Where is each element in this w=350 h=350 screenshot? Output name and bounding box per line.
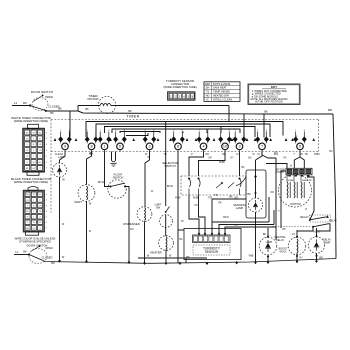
- svg-text:BU: BU: [38, 162, 41, 164]
- svg-text:GY: GY: [299, 257, 303, 260]
- svg-text:T: T: [295, 130, 297, 132]
- turbidity left feed: [178, 229, 184, 231]
- svg-text:RELAY: RELAY: [300, 215, 309, 219]
- selector contacts: [188, 178, 190, 180]
- key box: [248, 84, 300, 105]
- svg-text:(WIRE INSERTION SIDE): (WIRE INSERTION SIDE): [163, 85, 196, 89]
- svg-text:9: 9: [64, 145, 66, 149]
- svg-text:START: START: [288, 179, 296, 182]
- svg-text:LAMP: LAMP: [236, 206, 244, 210]
- wire junction to terminal 9 drop: [69, 111, 71, 137]
- svg-text:BK: BK: [329, 150, 333, 153]
- svg-text:P/BK: P/BK: [175, 196, 181, 199]
- legend table: [204, 82, 240, 102]
- heater: [150, 236, 173, 263]
- svg-text:P: P: [39, 138, 41, 140]
- svg-text:SWITCH: SWITCH: [164, 164, 175, 168]
- svg-text:BK: BK: [282, 228, 286, 231]
- motor right wire to relay: [308, 175, 315, 220]
- svg-text:7: 7: [261, 145, 263, 149]
- svg-text:Y: Y: [33, 150, 35, 152]
- wire B : L1 run to right edge: [78, 111, 333, 114]
- svg-text:SENSOR: SENSOR: [205, 250, 219, 254]
- wire bundle selector to turbidity sensor: [189, 195, 276, 233]
- svg-text:S: S: [115, 130, 117, 132]
- wire A drop at x229: [228, 106, 230, 123]
- svg-text:OR: OR: [270, 191, 274, 194]
- svg-text:W: W: [33, 162, 36, 164]
- svg-text:DISPENSER: DISPENSER: [123, 222, 140, 226]
- svg-text:LAMP: LAMP: [324, 241, 331, 244]
- svg-text:P: P: [39, 200, 41, 202]
- svg-text:T/R: T/R: [214, 194, 218, 197]
- svg-text:2: 2: [39, 156, 41, 158]
- svg-text:V: V: [27, 205, 29, 207]
- svg-text:BU: BU: [90, 152, 94, 155]
- timer terminal 7 at x=262: [255, 132, 269, 152]
- svg-text:4: 4: [46, 211, 48, 213]
- svg-text:TS: TS: [206, 90, 210, 94]
- svg-text:P&P: P&P: [205, 82, 211, 86]
- svg-text:V: V: [26, 144, 28, 146]
- svg-text:L1: L1: [15, 250, 19, 254]
- neutral bus wire (bottom): [43, 259, 336, 264]
- sensing lamp enclosure: [246, 170, 266, 218]
- svg-text:IC: IC: [206, 97, 209, 101]
- svg-text:INTELLI CLEAN: INTELLI CLEAN: [213, 97, 232, 101]
- secondary bus segment: [138, 257, 207, 259]
- svg-text:P: P: [191, 153, 193, 156]
- svg-text:OR: OR: [208, 157, 212, 160]
- svg-text:7: 7: [46, 228, 48, 230]
- wire A : timer motor to drop x229: [116, 105, 229, 107]
- svg-text:1: 1: [33, 156, 35, 158]
- svg-text:R: R: [305, 208, 307, 211]
- svg-text:BU: BU: [38, 132, 41, 134]
- timer motor TM: [78, 94, 116, 114]
- svg-text:TIMER: TIMER: [126, 115, 139, 119]
- svg-text:3: 3: [46, 205, 48, 207]
- svg-text:W: W: [147, 255, 150, 258]
- svg-text:GY: GY: [230, 157, 234, 160]
- svg-text:VENT: VENT: [74, 200, 82, 204]
- svg-text:OR: OR: [38, 144, 42, 146]
- svg-text:HEATER: HEATER: [150, 251, 161, 255]
- motor connector strip: [286, 168, 312, 176]
- timer terminal 6 at x=120: [113, 132, 127, 152]
- svg-text:BU: BU: [38, 222, 41, 224]
- svg-text:1: 1: [33, 217, 35, 219]
- motor feed horizontals: [266, 164, 287, 169]
- svg-text:W: W: [33, 132, 36, 134]
- clean lamp: [53, 152, 67, 262]
- svg-text:2: 2: [39, 217, 41, 219]
- stray connection arrows: [54, 138, 57, 141]
- svg-text:BK: BK: [26, 168, 29, 170]
- svg-text:T: T: [293, 153, 295, 156]
- svg-text:BK: BK: [247, 193, 251, 196]
- svg-text:GY: GY: [32, 168, 36, 170]
- motor feed from terminal 5: [294, 152, 300, 169]
- svg-text:BK: BK: [26, 194, 29, 196]
- svg-text:(W-D): (W-D): [280, 250, 287, 253]
- timer terminal 1 at x=104.5: [98, 132, 112, 152]
- svg-text:PK: PK: [234, 224, 238, 227]
- ground symbol: [110, 162, 116, 164]
- svg-text:T: T: [257, 130, 259, 132]
- timer enclosure right dashed edge: [318, 120, 320, 152]
- svg-text:T: T: [33, 200, 35, 202]
- svg-text:1: 1: [103, 145, 105, 149]
- svg-text:(WIRE INSERTION SIDE): (WIRE INSERTION SIDE): [14, 180, 49, 184]
- svg-text:PK: PK: [283, 157, 287, 160]
- svg-text:W: W: [252, 153, 255, 156]
- svg-text:PK: PK: [305, 153, 309, 156]
- timer terminal 9 at x=65: [58, 132, 72, 152]
- svg-text:MOTOR: MOTOR: [87, 97, 99, 101]
- svg-text:DELAY: DELAY: [276, 239, 284, 242]
- svg-text:SANI HEAT: SANI HEAT: [213, 86, 227, 90]
- svg-text:BR: BR: [319, 257, 323, 260]
- svg-text:8: 8: [207, 130, 209, 132]
- svg-text:GY: GY: [309, 179, 313, 182]
- ground stub U: [110, 152, 116, 167]
- svg-text:3: 3: [27, 222, 29, 224]
- svg-text:OPEN: OPEN: [45, 95, 53, 99]
- svg-text:TN: TN: [39, 150, 42, 152]
- svg-text:OR: OR: [38, 205, 42, 207]
- timer internal bus wires: [86, 122, 296, 138]
- svg-text:Y: Y: [234, 130, 236, 132]
- selector aux contact: [236, 177, 246, 186]
- svg-text:MAIN: MAIN: [302, 179, 308, 182]
- svg-text:SWITCH: SWITCH: [113, 175, 124, 179]
- svg-text:BK: BK: [264, 110, 268, 114]
- svg-text:3: 3: [46, 144, 48, 146]
- svg-text:T: T: [33, 138, 35, 140]
- svg-text:DOOR SWITCH: DOOR SWITCH: [31, 90, 53, 94]
- float switch: [105, 152, 130, 263]
- timer terminal 4 at x=203.5: [197, 132, 211, 152]
- turbidity sensor connector block: [168, 92, 196, 100]
- svg-text:8: 8: [177, 145, 179, 149]
- svg-text:W: W: [257, 153, 260, 156]
- svg-text:(WIRE INSERTION SIDE): (WIRE INSERTION SIDE): [14, 119, 49, 123]
- svg-text:W: W: [148, 156, 151, 159]
- dispenser solenoid: [123, 152, 152, 264]
- svg-text:2: 2: [46, 200, 48, 202]
- svg-text:RELAY: RELAY: [329, 220, 337, 223]
- svg-text:W/B: W/B: [249, 255, 254, 258]
- motor relay: [300, 215, 330, 222]
- vent motor: [74, 152, 95, 263]
- svg-text:HD: HD: [206, 94, 210, 98]
- svg-text:R/BK: R/BK: [314, 153, 320, 156]
- svg-text:MOTOR: MOTOR: [290, 202, 300, 206]
- svg-text:1: 1: [170, 96, 172, 99]
- svg-text:R: R: [33, 205, 35, 207]
- svg-text:TEMP SENSE: TEMP SENSE: [213, 90, 230, 94]
- svg-text:W: W: [89, 230, 92, 233]
- svg-text:T: T: [60, 130, 62, 132]
- motor feed jog from terminal 7: [275, 158, 277, 240]
- svg-text:BK: BK: [186, 256, 190, 259]
- selector switch box (dashed): [181, 176, 246, 195]
- svg-text:L1: L1: [14, 101, 18, 105]
- svg-text:W: W: [62, 178, 65, 182]
- relay to lamp feeds: [297, 227, 313, 231]
- door switch S1 (top left): [12, 90, 60, 115]
- timer terminal 8 at x=91.5: [85, 132, 99, 152]
- svg-text:T: T: [278, 210, 280, 213]
- timer enclosure left dashed edge: [50, 120, 52, 213]
- svg-text:5: 5: [299, 145, 301, 149]
- svg-text:BK: BK: [26, 228, 29, 230]
- svg-text:W: W: [290, 166, 293, 168]
- svg-text:BK: BK: [85, 108, 89, 111]
- svg-text:TN: TN: [39, 211, 42, 213]
- svg-text:R/G: R/G: [274, 153, 278, 155]
- sensing lamp: [233, 170, 262, 262]
- svg-text:PK: PK: [26, 150, 29, 152]
- black timer connector block: [23, 187, 47, 236]
- svg-text:3: 3: [238, 145, 240, 149]
- svg-text:BK: BK: [26, 132, 29, 134]
- svg-text:4: 4: [46, 150, 48, 152]
- svg-text:4: 4: [183, 96, 185, 99]
- svg-text:W: W: [33, 194, 36, 196]
- boost heater (W-D): [279, 230, 306, 261]
- svg-text:BK/W: BK/W: [167, 185, 174, 188]
- svg-text:BU: BU: [248, 157, 252, 160]
- svg-text:GY: GY: [292, 233, 296, 236]
- svg-text:W: W: [151, 190, 154, 193]
- svg-text:Y: Y: [99, 130, 101, 132]
- svg-text:GY: GY: [26, 200, 30, 202]
- svg-text:BK/R: BK/R: [223, 216, 229, 219]
- svg-text:T: T: [87, 130, 89, 132]
- svg-text:W: W: [62, 223, 65, 226]
- svg-text:SH: SH: [206, 86, 210, 90]
- svg-text:BK: BK: [229, 196, 233, 199]
- svg-text:BK: BK: [23, 250, 27, 254]
- svg-text:10: 10: [223, 145, 227, 149]
- wire up to timer motor line: [70, 106, 78, 112]
- wire L1 right edge vertical: [333, 114, 336, 259]
- svg-text:7: 7: [46, 168, 48, 170]
- svg-text:8: 8: [304, 130, 306, 132]
- svg-text:PK: PK: [218, 201, 222, 204]
- svg-text:TD: TD: [180, 220, 183, 223]
- svg-text:BK: BK: [58, 107, 62, 111]
- svg-text:1: 1: [220, 130, 222, 132]
- svg-text:KEY: KEY: [271, 85, 277, 89]
- svg-text:W/BK: W/BK: [219, 161, 226, 164]
- bus junction diamonds: [58, 259, 61, 262]
- svg-text:TD: TD: [163, 153, 167, 156]
- wire B drop to terminal 7: [263, 114, 265, 138]
- svg-text:T: T: [39, 168, 41, 170]
- svg-text:BK/W: BK/W: [98, 181, 105, 184]
- svg-text:1: 1: [46, 132, 48, 134]
- svg-text:BK: BK: [23, 101, 27, 105]
- svg-text:R: R: [33, 144, 35, 146]
- wire door switch to timer: [46, 110, 70, 112]
- svg-text:BK: BK: [241, 166, 245, 169]
- svg-text:HEATED DRY: HEATED DRY: [213, 94, 230, 98]
- svg-text:BU: BU: [130, 228, 134, 231]
- svg-text:8: 8: [243, 130, 245, 132]
- svg-text:BK: BK: [179, 238, 183, 241]
- svg-text:DOOR SWITCH: DOOR SWITCH: [27, 244, 48, 248]
- svg-text:GY: GY: [26, 138, 30, 140]
- svg-text:3: 3: [27, 162, 29, 164]
- svg-text:4: 4: [202, 145, 204, 149]
- svg-text:LAMP: LAMP: [266, 241, 273, 244]
- svg-text:BU: BU: [38, 194, 41, 196]
- svg-text:IN THE 'OFF' POSITION: IN THE 'OFF' POSITION: [255, 101, 283, 104]
- svg-text:GY: GY: [32, 228, 36, 230]
- svg-text:P: P: [229, 130, 231, 132]
- svg-text:6: 6: [46, 162, 48, 164]
- svg-text:5: 5: [187, 96, 189, 99]
- svg-text:PK: PK: [194, 204, 198, 207]
- svg-text:3: 3: [148, 145, 150, 149]
- svg-text:5: 5: [46, 156, 48, 158]
- svg-text:BR: BR: [328, 108, 332, 112]
- svg-text:N: N: [26, 156, 28, 158]
- svg-text:BK: BK: [50, 111, 54, 115]
- svg-text:POTS & PANS: POTS & PANS: [213, 82, 231, 86]
- svg-text:T: T: [39, 228, 41, 230]
- hi-limit thermostat: [155, 133, 173, 236]
- svg-text:5: 5: [46, 217, 48, 219]
- door switch S2 (bottom left): [14, 245, 55, 264]
- timer terminal 3 at x=149.5: [143, 132, 157, 152]
- svg-text:PK: PK: [26, 211, 29, 213]
- svg-text:8: 8: [90, 145, 92, 149]
- timer terminal 5 at x=300: [293, 132, 307, 152]
- white timer connector block: [23, 124, 48, 175]
- svg-text:BK: BK: [128, 110, 132, 113]
- svg-text:W: W: [33, 222, 36, 224]
- relay 2: [272, 220, 337, 228]
- timer terminal 8 at x=178: [171, 132, 185, 152]
- svg-text:BK: BK: [263, 233, 267, 236]
- timer terminal 3 at x=239.5: [233, 132, 247, 152]
- svg-text:2: 2: [46, 138, 48, 140]
- turbidity sensor box: [184, 229, 241, 260]
- svg-text:Y: Y: [173, 130, 175, 132]
- svg-text:2: 2: [175, 96, 177, 99]
- svg-text:SW: SW: [156, 206, 161, 210]
- svg-text:6: 6: [192, 96, 194, 99]
- svg-text:8: 8: [95, 130, 97, 132]
- svg-text:6: 6: [46, 222, 48, 224]
- svg-text:1: 1: [46, 194, 48, 196]
- svg-text:OPEN: OPEN: [45, 246, 53, 250]
- timer strip bottom dashed line: [51, 151, 319, 153]
- svg-text:8: 8: [266, 130, 268, 132]
- svg-text:P: P: [108, 130, 110, 132]
- svg-text:W: W: [169, 255, 172, 258]
- svg-text:N: N: [27, 217, 29, 219]
- svg-text:6: 6: [119, 145, 121, 149]
- delay lamp: [308, 228, 331, 261]
- motor left wire: [281, 171, 286, 228]
- wire B drop to terminal 3b right: [243, 114, 245, 139]
- heating delay lamp: [259, 228, 285, 262]
- motor (dashed circle): [279, 174, 312, 207]
- svg-text:3: 3: [179, 96, 181, 99]
- timer terminal 10 at x=225: [218, 132, 232, 152]
- svg-text:W: W: [62, 256, 65, 259]
- svg-text:T: T: [199, 130, 201, 132]
- svg-text:W: W: [89, 202, 92, 206]
- svg-text:Y: Y: [33, 211, 35, 213]
- selector feeds: [189, 152, 204, 177]
